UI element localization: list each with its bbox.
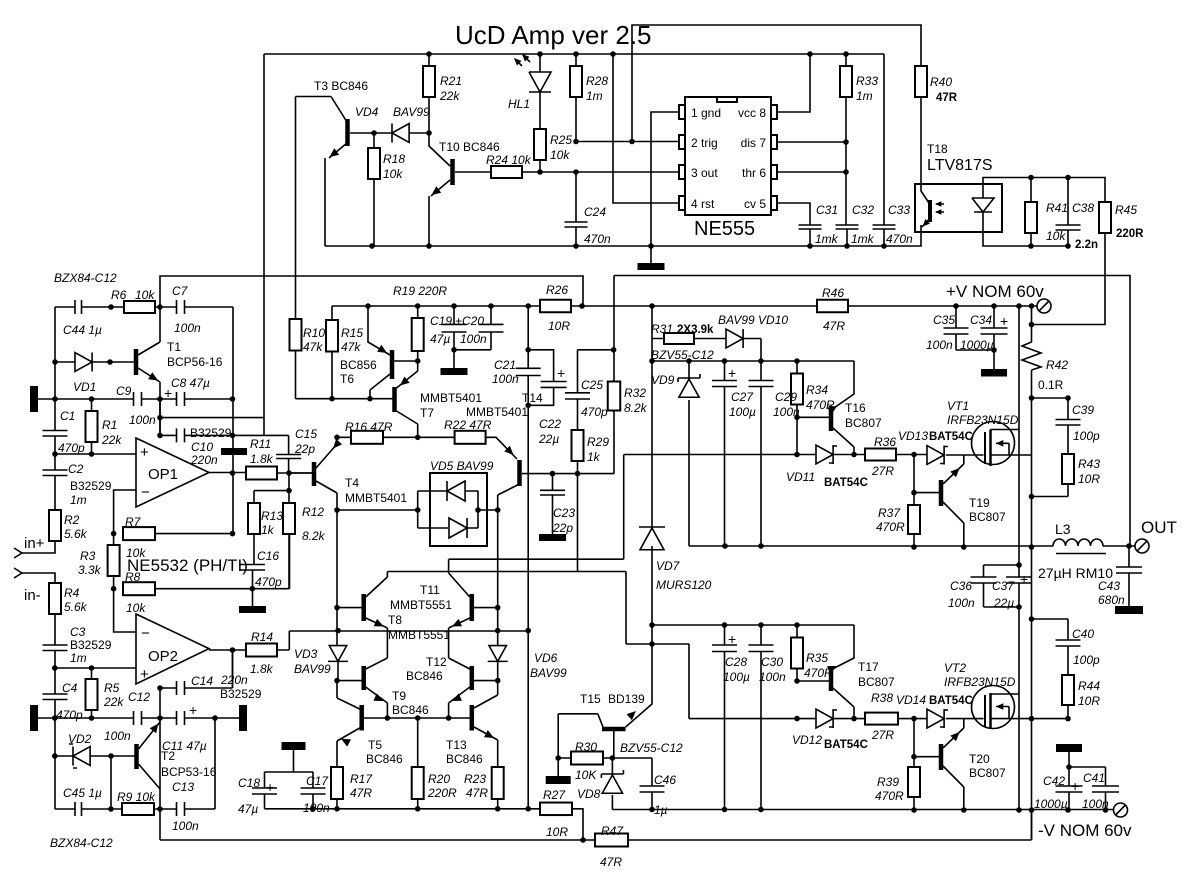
- transistor T15 BD139: [602, 727, 626, 732]
- resistor R27 10R: [528, 809, 583, 840]
- svg-text:VD12: VD12: [792, 733, 822, 747]
- svg-text:22µ: 22µ: [993, 596, 1014, 610]
- svg-text:R16 47R: R16 47R: [345, 420, 393, 434]
- svg-text:1 gnd: 1 gnd: [691, 106, 721, 120]
- resistor R10 47k: [290, 319, 302, 351]
- resistor R2 5.6k: [49, 510, 61, 541]
- svg-text:100µ: 100µ: [729, 405, 756, 419]
- svg-text:OP1: OP1: [148, 466, 178, 483]
- transistor T20 BC807: [939, 744, 944, 770]
- svg-text:R11: R11: [250, 437, 271, 451]
- svg-text:in+: in+: [24, 535, 45, 552]
- svg-text:C46: C46: [654, 773, 676, 787]
- wire T3 base to VD4: [350, 132, 392, 134]
- svg-text:100n: 100n: [172, 819, 199, 833]
- wire y809 C45/R9 row: [55, 718, 215, 809]
- wire gate line y718.6: [689, 718, 927, 720]
- svg-text:C28: C28: [725, 655, 747, 669]
- transistor T12 BC846: [470, 666, 475, 690]
- svg-text:C35: C35: [933, 313, 955, 327]
- svg-text:C23: C23: [553, 506, 575, 520]
- svg-text:T4: T4: [345, 476, 359, 490]
- svg-text:47R: 47R: [350, 786, 372, 800]
- svg-text:C32: C32: [852, 203, 874, 217]
- capacitor C28 100u: [724, 625, 726, 810]
- svg-text:MMBT5401: MMBT5401: [345, 491, 407, 505]
- svg-text:R3: R3: [80, 549, 96, 563]
- svg-text:C30: C30: [761, 655, 783, 669]
- wire x497.7 column mid: [497, 510, 499, 608]
- svg-text:BAV99: BAV99: [294, 662, 331, 676]
- diode VD11 BAT54C: [816, 445, 833, 464]
- svg-text:BC846: BC846: [366, 752, 403, 766]
- resistor R31 2X3.9k: [652, 338, 726, 340]
- ground bar C34: [981, 369, 1007, 377]
- capacitor C8 47u: [177, 392, 185, 406]
- svg-text:C1: C1: [60, 409, 75, 423]
- resistor R23 47R: [492, 767, 504, 799]
- svg-text:+V NOM 60v: +V NOM 60v: [946, 282, 1044, 301]
- svg-text:100µ: 100µ: [723, 670, 750, 684]
- resistor R24 10k: [491, 166, 522, 178]
- svg-text:+: +: [1020, 571, 1028, 587]
- wire y435.4 C10 row: [160, 435, 289, 454]
- svg-text:470R: 470R: [875, 789, 904, 803]
- svg-text:C29: C29: [775, 390, 797, 404]
- svg-text:C45 1µ: C45 1µ: [63, 786, 102, 800]
- svg-text:R34: R34: [806, 383, 828, 397]
- svg-text:R19 220R: R19 220R: [393, 284, 447, 298]
- svg-text:C9: C9: [116, 384, 132, 398]
- ground bar C42: [1056, 744, 1082, 752]
- svg-text:T15: T15: [580, 692, 601, 706]
- transistor T4 MMBT5401: [312, 462, 317, 486]
- wire -V rail y809.5: [612, 809, 1113, 811]
- resistor R30 10K: [571, 752, 603, 765]
- transistor T16 BC807: [829, 406, 834, 431]
- svg-text:UcD Amp ver 2.5: UcD Amp ver 2.5: [455, 20, 652, 50]
- wire y559.2: [449, 455, 624, 560]
- svg-text:C12: C12: [128, 690, 150, 704]
- svg-text:R25: R25: [550, 133, 572, 147]
- LED HL1: [529, 54, 551, 129]
- transistor T17 BC807: [829, 666, 834, 691]
- svg-text:100n: 100n: [460, 332, 487, 346]
- svg-text:MURS120: MURS120: [656, 578, 712, 592]
- svg-text:+C20: +C20: [455, 314, 484, 328]
- svg-text:R6: R6: [111, 288, 127, 302]
- svg-text:C15: C15: [295, 427, 317, 441]
- capacitor C13 100n: [177, 802, 185, 816]
- resistor R16 47R: [337, 436, 418, 438]
- diode VD4 BAV99: [392, 124, 409, 143]
- capacitor C11 47u: [177, 711, 185, 725]
- svg-text:C18: C18: [238, 776, 260, 790]
- svg-text:T9: T9: [392, 689, 406, 703]
- capacitor C14 220n B32529: [177, 681, 185, 695]
- wire OP1 minus input: [114, 490, 136, 534]
- svg-text:LTV817S: LTV817S: [927, 157, 993, 174]
- wire y399 row: [38, 398, 233, 400]
- svg-text:4 rst: 4 rst: [691, 197, 715, 211]
- svg-text:R1: R1: [102, 418, 117, 432]
- capacitor C43 680n: [1128, 546, 1130, 606]
- ground bar above C17: [282, 742, 306, 750]
- svg-text:470p: 470p: [581, 405, 608, 419]
- capacitor C21 100n: [527, 306, 529, 809]
- transistor T2 BCP53-16: [134, 744, 139, 769]
- svg-text:R31: R31: [651, 322, 673, 336]
- svg-text:R44: R44: [1078, 679, 1100, 693]
- svg-text:C16: C16: [257, 549, 279, 563]
- svg-text:C7: C7: [172, 284, 189, 298]
- svg-text:C40: C40: [1072, 627, 1094, 641]
- svg-text:dis 7: dis 7: [741, 136, 767, 150]
- svg-text:VT1: VT1: [947, 399, 969, 413]
- svg-text:10k: 10k: [135, 288, 155, 302]
- diode VD1: [75, 353, 92, 372]
- resistor R44 10R: [1062, 675, 1074, 705]
- resistor R5 22k: [86, 679, 98, 710]
- svg-text:VD9: VD9: [651, 373, 675, 387]
- svg-text:1000µ: 1000µ: [1034, 797, 1068, 811]
- svg-text:47R: 47R: [936, 92, 958, 104]
- svg-text:T10 BC846: T10 BC846: [439, 140, 500, 154]
- svg-text:R40: R40: [930, 75, 952, 89]
- wire x160 upper segment: [159, 399, 161, 435]
- svg-text:BC846: BC846: [406, 669, 443, 683]
- svg-text:HL1: HL1: [508, 97, 530, 111]
- svg-text:VD11: VD11: [786, 470, 815, 484]
- svg-text:R46: R46: [822, 286, 844, 300]
- resistor R6 10k: [124, 301, 155, 313]
- svg-text:R4: R4: [64, 586, 80, 600]
- svg-text:10R: 10R: [546, 825, 568, 839]
- svg-text:C27: C27: [731, 390, 754, 404]
- capacitor C23 22p: [552, 474, 554, 534]
- svg-text:27R: 27R: [871, 464, 894, 478]
- wire y454 OP1 plus input: [55, 453, 136, 455]
- svg-text:B32529: B32529: [190, 426, 232, 440]
- diode VD6 BAV99: [497, 608, 499, 681]
- svg-text:22p: 22p: [294, 442, 315, 456]
- resistor R8 10k: [123, 582, 155, 595]
- transistor T19 BC807: [939, 480, 944, 506]
- svg-text:100n: 100n: [926, 338, 953, 352]
- svg-text:C42: C42: [1043, 774, 1065, 788]
- ground bar C19/C20: [453, 350, 455, 368]
- svg-text:100n: 100n: [948, 596, 975, 610]
- capacitor C1 470p: [43, 431, 68, 437]
- resistor R25 10k: [534, 129, 546, 160]
- wire y417.6: [160, 417, 265, 419]
- wire y688 C14 row: [160, 650, 233, 688]
- diode VD10 BAV99: [726, 329, 743, 348]
- svg-text:1m: 1m: [70, 651, 87, 665]
- svg-text:T8: T8: [388, 613, 402, 627]
- svg-text:BCP56-16: BCP56-16: [167, 355, 223, 369]
- wire x55 column upper: [54, 307, 56, 430]
- svg-text:BZV55-C12: BZV55-C12: [651, 348, 714, 362]
- svg-text:+: +: [140, 444, 149, 461]
- svg-text:470n: 470n: [584, 232, 611, 246]
- resistor R38 27R: [865, 713, 898, 725]
- svg-text:R28: R28: [586, 74, 608, 88]
- svg-text:R27: R27: [543, 788, 566, 802]
- svg-text:VD1: VD1: [73, 380, 96, 394]
- svg-text:10R: 10R: [548, 319, 570, 333]
- svg-text:47k: 47k: [303, 340, 323, 354]
- wire x160 low column: [159, 688, 161, 840]
- resistor R18 10k: [368, 148, 380, 179]
- svg-text:C17: C17: [306, 774, 329, 788]
- capacitor C31 1mk: [799, 225, 822, 229]
- svg-text:BZX84-C12: BZX84-C12: [50, 836, 113, 850]
- svg-text:C34: C34: [970, 313, 992, 327]
- capacitor C17 100n: [312, 772, 314, 809]
- svg-text:R32: R32: [624, 386, 646, 400]
- svg-text:C24: C24: [584, 205, 606, 219]
- diode VD13 BAT54C: [927, 446, 944, 465]
- svg-text:2X3.9k: 2X3.9k: [677, 324, 714, 336]
- svg-text:2.2n: 2.2n: [1075, 239, 1098, 251]
- svg-text:C4: C4: [62, 681, 78, 695]
- svg-text:220n: 220n: [220, 673, 248, 687]
- wire x233 column: [232, 307, 234, 534]
- svg-text:BC807: BC807: [969, 766, 1006, 780]
- svg-text:BAT54C: BAT54C: [929, 695, 973, 707]
- resistor R42 0.1R zigzag: [1022, 306, 1041, 840]
- svg-text:MMBT5551: MMBT5551: [388, 628, 450, 642]
- svg-text:R14: R14: [251, 630, 273, 644]
- svg-text:0.1R: 0.1R: [1038, 378, 1064, 392]
- svg-text:C44 1µ: C44 1µ: [63, 323, 102, 337]
- svg-text:R13: R13: [261, 509, 283, 523]
- svg-text:47µ: 47µ: [238, 802, 258, 816]
- svg-text:C2: C2: [68, 462, 84, 476]
- capacitor C46 1u: [612, 758, 652, 810]
- capacitor C10 220n B32529: [177, 428, 185, 442]
- svg-text:R24 10k: R24 10k: [486, 153, 532, 167]
- diode VD14 BAT54C: [927, 709, 944, 728]
- transistor T10 BC846: [450, 159, 455, 185]
- svg-text:8.2k: 8.2k: [302, 529, 326, 543]
- resistor R19: [412, 318, 424, 351]
- wire y668 OP2 plus input: [55, 667, 136, 669]
- svg-text:VT2: VT2: [944, 661, 966, 675]
- svg-text:BC846: BC846: [392, 703, 429, 717]
- svg-text:OP2: OP2: [148, 648, 178, 665]
- svg-text:10K: 10K: [575, 768, 597, 782]
- svg-text:C13: C13: [172, 780, 194, 794]
- svg-text:OUT: OUT: [1141, 518, 1177, 537]
- wire mid rail y361: [652, 361, 854, 409]
- svg-text:T20: T20: [969, 752, 990, 766]
- svg-text:R30: R30: [575, 740, 597, 754]
- resistor R12 8.2k: [283, 503, 295, 534]
- svg-text:T2: T2: [161, 749, 175, 763]
- capacitor C22 22u: [528, 350, 553, 406]
- svg-text:47R: 47R: [823, 319, 845, 333]
- svg-text:220R: 220R: [427, 786, 457, 800]
- svg-text:BC856: BC856: [340, 358, 377, 372]
- resistor R35 470R: [791, 638, 803, 669]
- svg-text:C38: C38: [1072, 201, 1094, 215]
- svg-text:1k: 1k: [261, 523, 275, 537]
- svg-text:+: +: [1071, 778, 1079, 794]
- svg-text:+: +: [189, 702, 197, 718]
- junction dots middle section: [649, 303, 655, 309]
- transistor T5 BC846: [359, 705, 364, 731]
- svg-text:BAT54C: BAT54C: [824, 477, 868, 489]
- capacitor C30 100n: [760, 625, 762, 810]
- svg-text:in-: in-: [24, 587, 41, 604]
- capacitor C40 100p: [1032, 619, 1069, 675]
- wire bottom rail left y808.8: [265, 808, 529, 810]
- transistor T3 BC846: [345, 119, 350, 146]
- svg-text:10k: 10k: [383, 167, 403, 181]
- wire T3 collector feed x295.5: [296, 97, 332, 320]
- svg-text:100n: 100n: [174, 321, 201, 335]
- svg-text:T19: T19: [969, 496, 990, 510]
- svg-text:BAV99: BAV99: [530, 666, 567, 680]
- svg-text:BC807: BC807: [845, 416, 882, 430]
- svg-text:+: +: [728, 631, 736, 647]
- capacitor C29 100n: [760, 361, 762, 546]
- wire OP2 minus input: [114, 589, 136, 632]
- junction dots left section: [108, 304, 114, 310]
- svg-text:100n: 100n: [759, 670, 786, 684]
- svg-text:C36: C36: [950, 579, 972, 593]
- svg-text:VD6: VD6: [534, 651, 558, 665]
- wire top supply rail y54: [264, 53, 884, 55]
- capacitor C32 1mk: [836, 225, 859, 229]
- terminal OUT: [1135, 539, 1149, 553]
- svg-text:R15: R15: [341, 326, 363, 340]
- svg-text:thr 6: thr 6: [742, 166, 766, 180]
- svg-text:C41: C41: [1083, 771, 1105, 785]
- svg-text:R20: R20: [428, 772, 450, 786]
- wire pin7 dis: [777, 141, 846, 143]
- svg-text:+: +: [140, 666, 149, 683]
- resistor R47 47R: [595, 834, 628, 847]
- svg-text:100n: 100n: [492, 372, 519, 386]
- svg-text:100n: 100n: [129, 413, 156, 427]
- capacitor C33 470n: [873, 225, 896, 229]
- svg-text:22p: 22p: [552, 521, 573, 535]
- capacitor C9 100n: [134, 392, 142, 406]
- svg-text:+: +: [266, 779, 274, 795]
- resistor R39 470R: [908, 767, 920, 797]
- wire y644 link: [626, 644, 689, 719]
- svg-text:2 trig: 2 trig: [691, 136, 718, 150]
- svg-text:470n: 470n: [886, 232, 913, 246]
- svg-text:1m: 1m: [856, 89, 873, 103]
- wire x55 lower: [54, 718, 56, 809]
- svg-text:IRFB23N15D: IRFB23N15D: [944, 675, 1016, 689]
- +V rail y306: [332, 305, 1037, 307]
- svg-text:1mk: 1mk: [851, 232, 875, 246]
- wire x1019 drain column: [1018, 306, 1020, 810]
- svg-text:-V NOM 60v: -V NOM 60v: [1038, 821, 1132, 840]
- wire T4 collector to VD5 y510: [337, 509, 418, 511]
- svg-text:R23: R23: [464, 772, 486, 786]
- wire x337 column mid: [336, 510, 338, 608]
- wire pin8 vcc: [777, 54, 810, 112]
- svg-text:VD2: VD2: [68, 732, 92, 746]
- svg-text:47R: 47R: [466, 786, 488, 800]
- transistor T9 BC846: [361, 666, 366, 690]
- svg-text:C37: C37: [992, 579, 1015, 593]
- capacitor C16 470p: [240, 565, 265, 571]
- svg-text:BCP53-16: BCP53-16: [161, 765, 217, 779]
- svg-text:R18: R18: [383, 152, 405, 166]
- resistor R4 5.6k: [49, 583, 61, 614]
- svg-text:−: −: [141, 625, 150, 642]
- svg-text:L3: L3: [1055, 521, 1071, 537]
- svg-text:3 out: 3 out: [691, 166, 718, 180]
- capacitor C35 100n: [956, 306, 994, 350]
- op-amp OP2: [136, 614, 209, 684]
- svg-text:+: +: [728, 365, 736, 381]
- svg-text:47k: 47k: [341, 340, 361, 354]
- svg-text:VD5 BAV99: VD5 BAV99: [430, 459, 494, 473]
- wire left long vertical x264: [263, 54, 265, 435]
- resistor R17 47R: [331, 767, 343, 799]
- svg-text:T6: T6: [340, 372, 354, 386]
- resistor R28 1m: [570, 66, 582, 97]
- svg-text:R39: R39: [877, 775, 899, 789]
- capacitor C25 470p: [578, 350, 614, 406]
- wire x652 column: [626, 306, 652, 727]
- svg-text:22k: 22k: [103, 695, 124, 709]
- svg-text:BAV99 VD10: BAV99 VD10: [718, 313, 788, 327]
- svg-text:27R: 27R: [871, 728, 894, 742]
- svg-text:22k: 22k: [439, 89, 460, 103]
- svg-text:R43: R43: [1078, 457, 1100, 471]
- svg-text:T13: T13: [446, 738, 467, 752]
- svg-text:C43: C43: [1098, 579, 1120, 593]
- junction dots driver section: [334, 605, 340, 611]
- resistor R1 22k: [86, 411, 98, 442]
- capacitor C36 100n: [984, 565, 1020, 607]
- resistor R37 470R: [908, 505, 920, 534]
- svg-text:R22 47R: R22 47R: [444, 418, 492, 432]
- svg-text:R26: R26: [546, 283, 568, 297]
- transistor T11 MMBT5551: [470, 594, 475, 621]
- wire long bottom y840: [160, 810, 1032, 840]
- input terminal in+: [14, 548, 22, 558]
- capacitor C45 1u: [75, 802, 82, 816]
- resistor R40 47R: [915, 66, 927, 97]
- svg-text:R36: R36: [874, 435, 896, 449]
- svg-text:R33: R33: [856, 74, 878, 88]
- svg-text:BD139: BD139: [608, 692, 645, 706]
- svg-text:VD4: VD4: [355, 105, 379, 119]
- ground bar right of C11: [239, 705, 247, 731]
- wire opto top rail y177.5: [983, 178, 1105, 247]
- ground bar left lower: [30, 705, 38, 731]
- svg-text:BC846: BC846: [446, 752, 483, 766]
- svg-text:R42: R42: [1046, 358, 1068, 372]
- svg-text:470p: 470p: [255, 575, 282, 589]
- svg-text:R37: R37: [878, 506, 901, 520]
- svg-text:1m: 1m: [586, 89, 603, 103]
- transistor T14 MMBT5401: [517, 460, 522, 486]
- junction dots top section: [426, 51, 432, 57]
- wire pin1 gnd: [651, 112, 679, 246]
- svg-text:T14: T14: [522, 391, 543, 405]
